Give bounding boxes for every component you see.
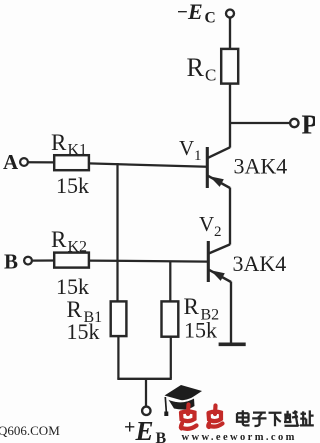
transistor V1 (207, 147, 230, 188)
resistor RB1 (111, 301, 127, 336)
svg-text:V: V (199, 212, 214, 236)
wire emitter V1 to collector V2 (229, 188, 231, 245)
svg-text:+: + (124, 417, 135, 439)
svg-text:www.eeworm.com: www.eeworm.com (182, 432, 297, 443)
svg-text:C: C (205, 66, 216, 85)
wire A to RK1 (28, 161, 55, 163)
terminal B (24, 257, 32, 265)
watermark chongchong characters (181, 405, 223, 429)
svg-text:3AK4: 3AK4 (234, 154, 288, 179)
wire node A to RB1 (116, 163, 118, 302)
resistor RK2 (54, 253, 89, 268)
svg-text:E: E (135, 416, 154, 443)
svg-text:E: E (187, 0, 203, 24)
svg-text:C: C (205, 10, 216, 27)
svg-text:2: 2 (214, 224, 222, 240)
terminal A (20, 158, 28, 166)
watermark graduation cap logo (164, 385, 202, 416)
wire RK2 to base V2 (89, 261, 208, 262)
resistor RC (221, 49, 238, 84)
svg-text:B: B (156, 430, 167, 443)
ground (219, 342, 246, 346)
wire RC to collector V1 (229, 84, 231, 148)
svg-text:15k: 15k (56, 173, 89, 198)
svg-text:R: R (51, 227, 67, 252)
svg-text:−: − (177, 2, 188, 23)
watermark text dianzi xiazaizhan (237, 410, 314, 426)
svg-text:R: R (187, 53, 205, 82)
svg-text:B: B (4, 250, 18, 274)
label RB2 (184, 294, 220, 324)
svg-text:R: R (51, 130, 67, 155)
wire node B to RB2 (169, 261, 171, 302)
wire RB1 to bottom rail (117, 336, 119, 379)
svg-text:15k: 15k (67, 319, 100, 344)
transistor V2 (208, 241, 231, 282)
label +EB (124, 416, 167, 443)
label V1 (179, 136, 202, 164)
svg-text:Q606.COM: Q606.COM (0, 423, 60, 438)
wire RK1 to base V1 (89, 163, 207, 166)
wire B to RK2 (32, 259, 55, 261)
bottom rail wire (117, 378, 171, 380)
wire rail to +EB terminal (145, 379, 147, 407)
label RK2 (51, 227, 87, 256)
svg-text:R: R (184, 294, 200, 319)
wire output node to P (229, 122, 290, 124)
svg-text:V: V (179, 136, 194, 160)
supply label -EC (177, 0, 216, 27)
svg-text:1: 1 (194, 148, 202, 164)
terminal +EB (142, 407, 150, 415)
label RC (187, 53, 217, 85)
svg-text:3AK4: 3AK4 (233, 251, 287, 276)
label RB1 (67, 297, 103, 326)
svg-text:P: P (302, 110, 316, 140)
svg-text:A: A (3, 150, 19, 174)
svg-text:K2: K2 (68, 239, 88, 256)
resistor RB2 (162, 301, 179, 336)
wire RB2 to bottom rail (170, 337, 172, 379)
terminal -EC (226, 10, 234, 18)
resistor RK1 (54, 155, 89, 170)
terminal P (290, 119, 298, 127)
label RK1 (51, 130, 87, 159)
svg-text:15k: 15k (56, 274, 89, 299)
svg-text:K1: K1 (68, 142, 88, 159)
wire emitter V2 to ground (230, 282, 232, 344)
svg-text:15k: 15k (184, 318, 217, 343)
wire -EC to RC (229, 18, 231, 49)
label V2 (199, 212, 222, 240)
